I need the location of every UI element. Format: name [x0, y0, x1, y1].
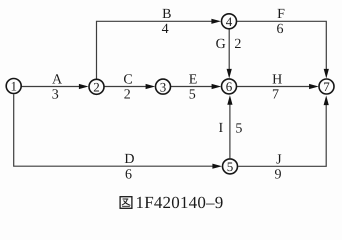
svg-text:B: B [162, 7, 171, 22]
svg-text:4: 4 [226, 14, 233, 29]
svg-text:6: 6 [226, 79, 233, 94]
svg-text:C: C [123, 72, 132, 87]
svg-text:1F420140–9: 1F420140–9 [136, 193, 224, 212]
svg-text:7: 7 [272, 87, 279, 102]
svg-text:3: 3 [52, 87, 59, 102]
svg-text:J: J [276, 152, 282, 167]
node 6 [222, 79, 237, 94]
svg-text:6: 6 [277, 22, 284, 37]
svg-text:F: F [277, 7, 285, 22]
wire A: node 1 to node 2 [21, 84, 89, 89]
node 7 [319, 79, 334, 94]
wire B: node 2 up and right to node 4 [97, 19, 222, 79]
svg-text:4: 4 [162, 22, 169, 37]
svg-text:5: 5 [189, 87, 196, 102]
svg-text:1: 1 [10, 79, 17, 94]
wire G: node 4 down to node 6 [227, 29, 232, 78]
label D/6 [124, 152, 134, 182]
node 3 [156, 79, 171, 94]
svg-text:2: 2 [93, 80, 100, 95]
node 1 [6, 79, 21, 94]
svg-text:3: 3 [160, 79, 167, 94]
wire E: node 3 to node 6 [171, 84, 221, 89]
node 5 [223, 159, 238, 174]
caption text 1F420140-9 [136, 193, 224, 212]
label F/6 [277, 7, 286, 37]
svg-text:7: 7 [323, 79, 330, 94]
label J/9 [275, 152, 283, 182]
label H/7 [272, 72, 282, 102]
svg-text:I: I [218, 121, 223, 136]
wire D: node 1 down and right to node 5 [14, 94, 222, 169]
wire H: node 6 to node 7 [237, 84, 319, 89]
svg-text:5: 5 [227, 159, 234, 174]
wire F: node 4 right and down to node 7 [237, 21, 329, 78]
label G/2 [216, 37, 242, 52]
node 2 [89, 79, 104, 94]
svg-text:9: 9 [275, 168, 282, 183]
svg-text:6: 6 [125, 167, 132, 182]
svg-text:5: 5 [235, 122, 242, 137]
label E/5 [189, 72, 198, 102]
svg-text:2: 2 [234, 37, 241, 52]
label I/5 [218, 121, 242, 136]
svg-text:D: D [124, 152, 134, 167]
label B/4 [162, 7, 172, 37]
label C/2 [123, 72, 132, 102]
node 4 [222, 14, 237, 29]
wire J: node 5 right and up to node 7 [238, 96, 329, 167]
svg-text:A: A [52, 72, 63, 87]
label A/3 [52, 72, 63, 102]
wire I: node 5 up to node 6 [227, 95, 232, 158]
caption 图 glyph (drawn) [120, 197, 132, 209]
svg-text:H: H [272, 72, 282, 87]
wire C: node 2 to node 3 [105, 84, 156, 89]
svg-text:G: G [216, 37, 226, 52]
svg-text:2: 2 [124, 87, 131, 102]
svg-text:E: E [189, 72, 198, 87]
